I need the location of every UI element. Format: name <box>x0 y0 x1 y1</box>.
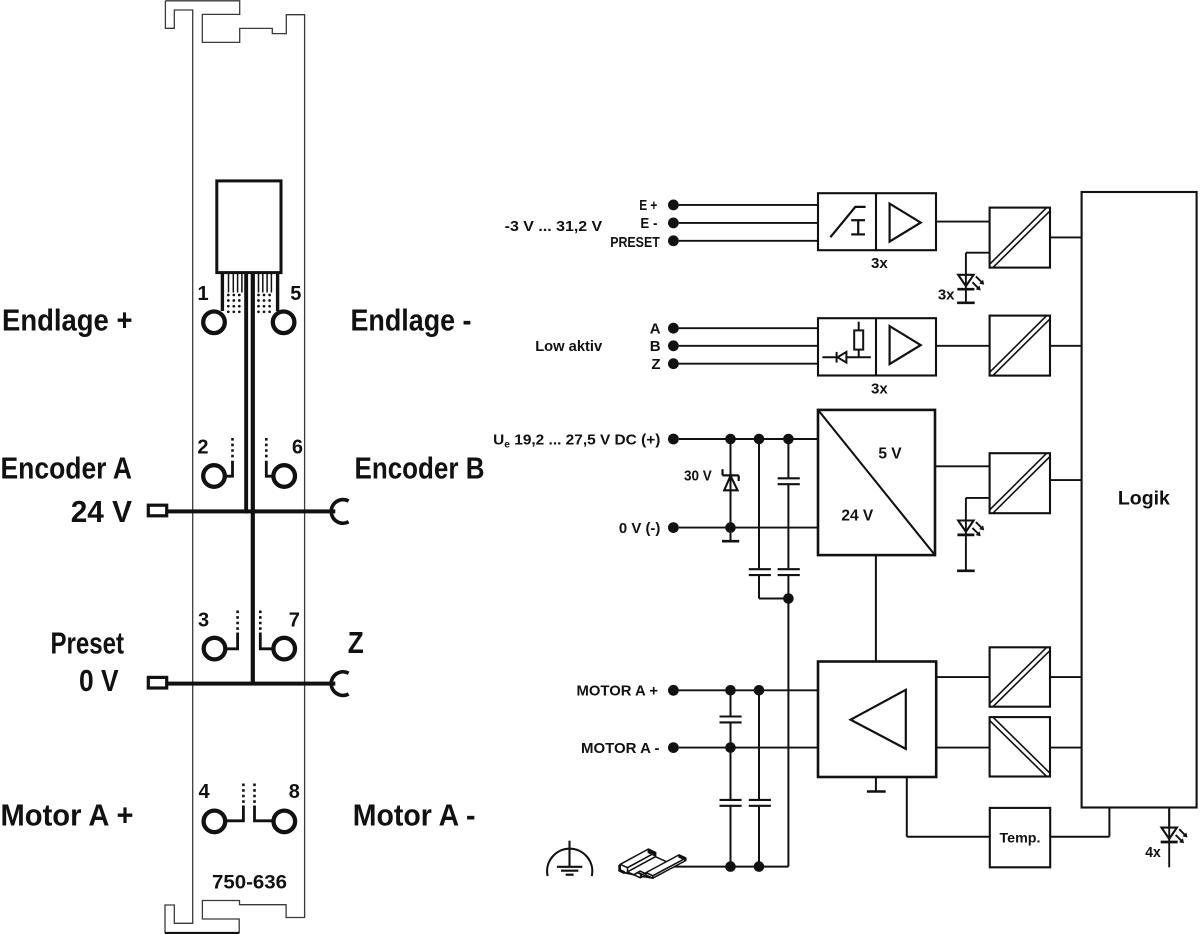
svg-text:-3 V ... 31,2 V: -3 V ... 31,2 V <box>505 218 603 235</box>
svg-text:1: 1 <box>197 283 208 305</box>
svg-text:3x: 3x <box>871 255 888 272</box>
svg-text:3x: 3x <box>938 287 955 304</box>
svg-text:B: B <box>650 338 661 355</box>
svg-text:Motor A +: Motor A + <box>1 797 134 832</box>
svg-text:3x: 3x <box>871 381 888 398</box>
svg-text:Z: Z <box>651 356 660 373</box>
svg-text:E -: E - <box>640 215 657 232</box>
svg-text:0 V: 0 V <box>79 663 119 698</box>
svg-text:MOTOR A -: MOTOR A - <box>581 740 660 757</box>
svg-text:30 V: 30 V <box>684 467 712 484</box>
svg-text:3: 3 <box>198 610 209 632</box>
svg-text:24 V: 24 V <box>71 494 133 529</box>
svg-text:Encoder A: Encoder A <box>1 450 133 485</box>
svg-text:A: A <box>650 320 661 337</box>
svg-text:Low aktiv: Low aktiv <box>535 338 603 355</box>
svg-text:0 V (-): 0 V (-) <box>619 520 661 537</box>
svg-text:MOTOR A +: MOTOR A + <box>577 683 659 700</box>
svg-text:Endlage -: Endlage - <box>351 303 472 338</box>
svg-text:7: 7 <box>289 610 300 632</box>
svg-text:PRESET: PRESET <box>610 234 660 251</box>
svg-text:Ue 19,2 ... 27,5 V DC (+): Ue 19,2 ... 27,5 V DC (+) <box>493 432 660 451</box>
svg-text:24 V: 24 V <box>841 508 874 525</box>
svg-text:Z: Z <box>348 625 364 660</box>
svg-text:2: 2 <box>197 436 208 458</box>
svg-text:Preset: Preset <box>51 626 125 661</box>
svg-text:Encoder B: Encoder B <box>355 450 485 485</box>
svg-text:Logik: Logik <box>1118 488 1170 510</box>
svg-text:5: 5 <box>290 283 301 305</box>
svg-text:4: 4 <box>199 781 211 803</box>
svg-text:6: 6 <box>292 436 303 458</box>
svg-text:4x: 4x <box>1145 844 1161 861</box>
svg-text:Endlage +: Endlage + <box>2 303 133 338</box>
svg-text:E +: E + <box>639 197 657 214</box>
svg-text:Motor A -: Motor A - <box>353 797 476 832</box>
svg-text:Temp.: Temp. <box>1000 830 1041 845</box>
svg-text:750-636: 750-636 <box>212 872 287 894</box>
svg-text:8: 8 <box>289 781 300 803</box>
svg-text:5 V: 5 V <box>878 446 902 463</box>
